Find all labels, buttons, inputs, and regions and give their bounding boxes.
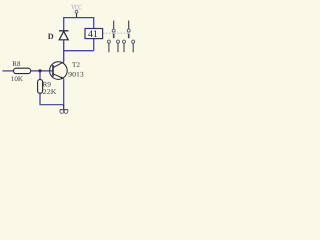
svg-text:R8: R8 xyxy=(12,60,21,68)
resistor R8 body xyxy=(14,68,31,73)
ground symbol xyxy=(60,110,69,114)
relay contact pole 1 circle xyxy=(112,29,115,32)
resistor R9 body xyxy=(38,80,43,94)
transistor T2 emitter stroke xyxy=(53,74,63,79)
transistor T2 emitter arrow xyxy=(61,76,64,78)
wire relay coil bottom pin xyxy=(93,39,95,51)
wire diode anode down to collector node xyxy=(63,40,65,62)
relay contact pin 1 circle xyxy=(107,40,110,43)
relay contact pin 4 circle xyxy=(132,40,135,43)
relay contact pin 2 circle xyxy=(117,40,120,43)
wire emitter down xyxy=(63,79,65,105)
ground stem xyxy=(63,105,65,110)
transistor T2 collector stroke xyxy=(53,62,63,68)
relay coil box xyxy=(85,29,103,39)
sheet background xyxy=(0,0,140,120)
relay contact pole 2 circle xyxy=(127,29,130,32)
wire VCC rail xyxy=(64,18,94,31)
relay contact pin 1 stem xyxy=(108,43,110,52)
wire input to R8 xyxy=(3,70,14,72)
transistor T2 circle xyxy=(50,62,68,80)
svg-text:10K: 10K xyxy=(11,75,23,83)
relay contact pole 2 armature xyxy=(128,34,130,39)
relay contact pin 3 stem xyxy=(123,43,125,52)
relay contact pin 2 stem xyxy=(117,43,119,52)
wire R8 to base xyxy=(31,70,53,72)
svg-text:41: 41 xyxy=(88,29,98,40)
relay contact pole 1 pin xyxy=(113,21,115,30)
wire node to relay coil bottom xyxy=(63,50,94,52)
relay contact pole 2 pin xyxy=(128,21,130,30)
svg-text:9013: 9013 xyxy=(68,71,84,79)
power port VCC circle xyxy=(75,10,78,13)
svg-text:22K: 22K xyxy=(43,88,57,96)
diode D triangle xyxy=(59,31,68,39)
svg-text:T2: T2 xyxy=(72,61,81,69)
relay contact pole 1 armature xyxy=(113,34,115,39)
wire junction to R9 xyxy=(39,71,41,80)
relay contact pin 4 stem xyxy=(132,43,134,52)
svg-text:D: D xyxy=(48,32,54,41)
dashed link coil to contacts xyxy=(103,32,128,34)
relay contact pin 3 circle xyxy=(123,40,126,43)
wire R9 to ground rail xyxy=(40,93,64,105)
transistor T2 base bar xyxy=(52,65,54,77)
diode D cathode bar xyxy=(59,30,68,32)
power port VCC stem xyxy=(76,13,78,17)
junction dot xyxy=(38,69,41,72)
